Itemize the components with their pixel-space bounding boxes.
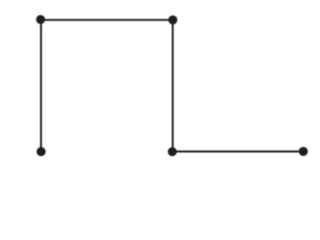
node C <box>37 147 46 156</box>
wire middle vertical B-D <box>172 20 174 152</box>
node B <box>168 15 177 24</box>
node A <box>36 15 45 24</box>
node D <box>168 147 177 156</box>
node E <box>299 147 308 156</box>
wire bottom horizontal D-E <box>173 151 304 153</box>
wire top horizontal A-B <box>41 19 173 21</box>
wire left vertical A-C <box>40 20 42 152</box>
